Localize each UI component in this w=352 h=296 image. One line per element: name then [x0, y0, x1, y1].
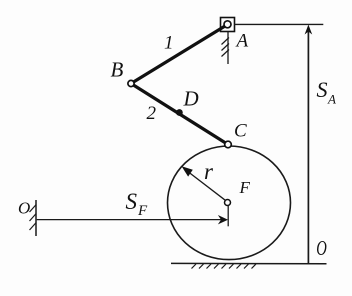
left support hatching: [30, 205, 37, 231]
wheel (roller, center F): [168, 146, 291, 260]
svg-text:r: r: [204, 159, 214, 184]
S_F arrowhead: [218, 215, 228, 224]
slider block at A: [221, 18, 235, 32]
S_F dimension line: [37, 219, 221, 221]
ground line: [171, 262, 327, 264]
link 1 (A-B): [131, 25, 228, 84]
svg-text:2: 2: [147, 103, 157, 124]
ground hatching: [192, 264, 257, 269]
point D (filled): [176, 109, 183, 116]
pin joint C: [225, 141, 232, 148]
slider guide line below block A: [227, 32, 229, 65]
measuring tick below F: [227, 206, 229, 227]
svg-text:B: B: [111, 57, 124, 81]
left support post: [35, 200, 37, 236]
S_A arrowhead (up): [305, 25, 313, 35]
S_A dimension line (vertical): [307, 27, 309, 263]
radius arrow r (from F to wheel rim): [182, 166, 226, 201]
link 2 (B-C): [131, 84, 228, 145]
svg-text:F: F: [239, 178, 251, 197]
svg-text:F: F: [137, 203, 148, 219]
svg-text:D: D: [183, 87, 199, 111]
svg-text:A: A: [235, 31, 249, 52]
svg-text:O: O: [18, 199, 30, 218]
slider guide hatching at A: [222, 38, 230, 57]
pin joint A: [224, 21, 231, 28]
pin joint B: [128, 80, 134, 86]
top reference line from A: [235, 23, 324, 25]
svg-text:O: O: [316, 236, 327, 259]
svg-text:S: S: [317, 77, 328, 102]
svg-text:C: C: [234, 121, 247, 142]
svg-text:S: S: [126, 189, 138, 214]
svg-text:A: A: [327, 92, 336, 107]
pin joint F (wheel center): [225, 200, 231, 206]
svg-text:1: 1: [164, 33, 174, 54]
